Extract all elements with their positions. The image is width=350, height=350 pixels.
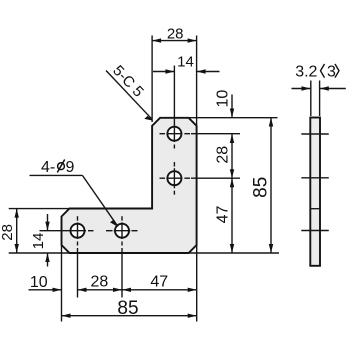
hole H2 (right hole of horizontal arm) bbox=[115, 224, 129, 238]
dim 28 left bbox=[16, 209, 18, 253]
left extension lines bbox=[9, 209, 70, 253]
svg-text:28: 28 bbox=[0, 224, 16, 241]
dim 85 bottom bbox=[62, 315, 197, 317]
dim 14 left bbox=[47, 214, 49, 267]
leader 5-C 5 (chamfer callout) bbox=[106, 71, 152, 120]
bottom extension lines bbox=[62, 245, 197, 322]
dim 28 top bbox=[152, 40, 197, 42]
dim 10 bottom bbox=[29, 289, 62, 291]
svg-text:3: 3 bbox=[327, 64, 336, 81]
dim 28 right bbox=[231, 134, 233, 178]
hole V1 (top hole of vertical arm) bbox=[167, 127, 181, 141]
dim 3.2 (3) thickness bbox=[292, 81, 346, 117]
L-shaped corner plate (front view) bbox=[62, 118, 197, 253]
svg-text:4-: 4- bbox=[41, 159, 55, 176]
svg-text:3.2: 3.2 bbox=[295, 64, 317, 81]
svg-text:85: 85 bbox=[251, 177, 272, 198]
dim 85 right bbox=[270, 118, 272, 254]
right extension lines bbox=[189, 118, 279, 253]
dim 28 bottom bbox=[78, 289, 123, 291]
svg-text:10: 10 bbox=[214, 90, 231, 108]
dim 47 right bbox=[231, 178, 233, 253]
angle bracket left bbox=[321, 64, 325, 78]
dim 47 bottom bbox=[122, 289, 197, 291]
svg-text:28: 28 bbox=[91, 273, 109, 290]
svg-text:47: 47 bbox=[215, 206, 232, 224]
centerlines hole H1 bbox=[40, 216, 94, 297]
svg-text:85: 85 bbox=[117, 298, 138, 319]
hole H1 (left hole of horizontal arm) bbox=[71, 224, 85, 238]
centerlines hole H2 bbox=[106, 216, 138, 297]
hole V2 (lower hole of vertical arm) bbox=[167, 171, 181, 185]
svg-text:14: 14 bbox=[177, 54, 194, 71]
svg-text:28: 28 bbox=[214, 146, 231, 164]
angle bracket right bbox=[335, 64, 339, 78]
svg-text:47: 47 bbox=[150, 273, 168, 290]
dim 14 top bbox=[153, 71, 220, 73]
centerlines hole V1 bbox=[160, 66, 241, 149]
svg-text:28: 28 bbox=[167, 25, 184, 42]
side view arm edge line bbox=[310, 208, 320, 210]
svg-text:14: 14 bbox=[30, 233, 47, 250]
svg-text:9: 9 bbox=[66, 159, 75, 176]
extension lines top bbox=[152, 36, 197, 127]
centerlines hole V2 bbox=[160, 162, 241, 195]
svg-text:10: 10 bbox=[30, 274, 48, 291]
dim 10 right bbox=[231, 95, 233, 118]
side view bar bbox=[310, 118, 320, 266]
side view hole ticks bbox=[301, 134, 329, 231]
